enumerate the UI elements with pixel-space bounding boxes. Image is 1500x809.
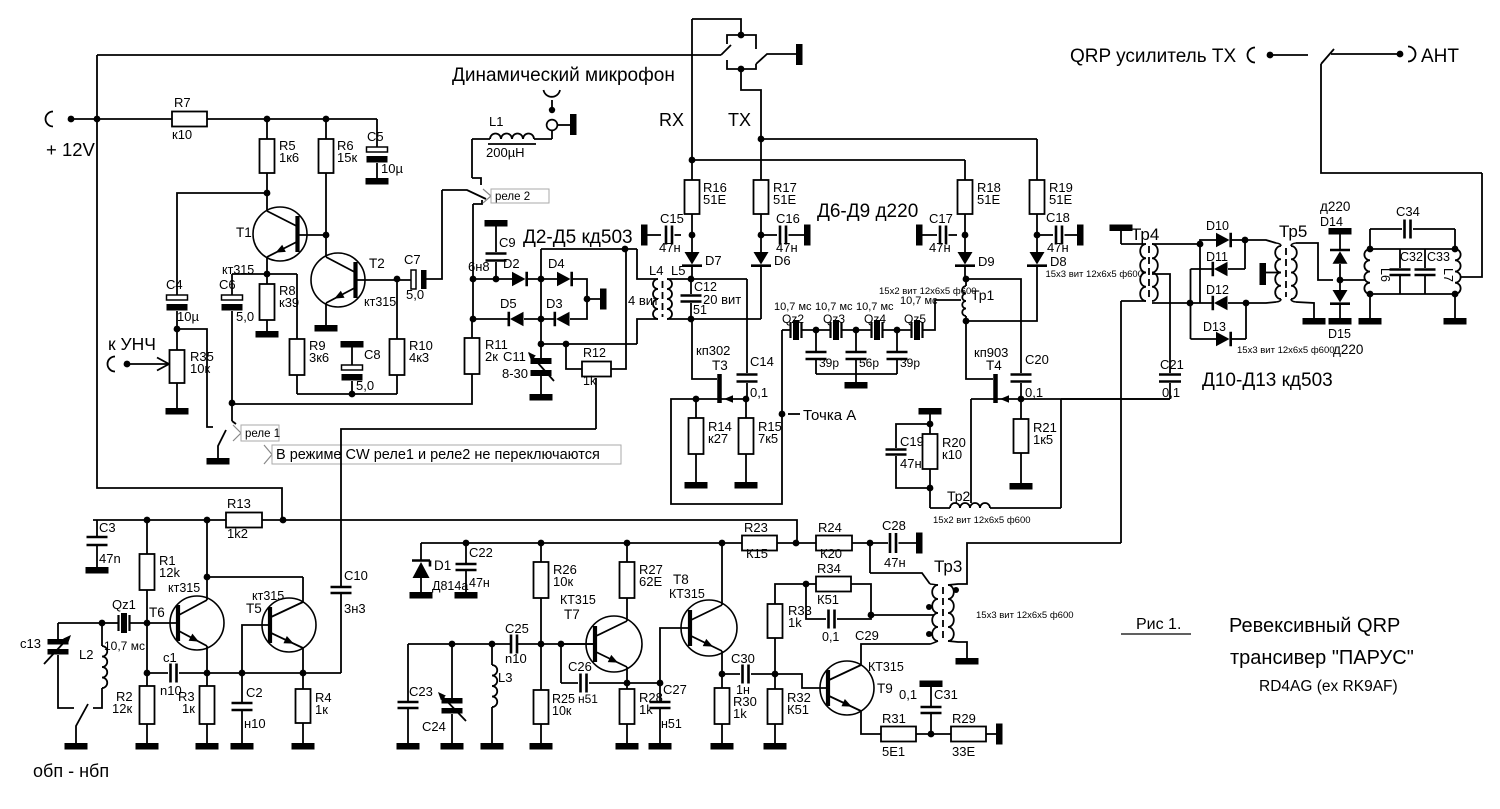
wire bus R24-C28 [852, 542, 888, 544]
transistor T7 [586, 616, 642, 672]
transformer Tp4 secondary [1152, 244, 1158, 301]
diode D5 [507, 312, 510, 327]
svg-text:D5: D5 [500, 296, 517, 311]
microphone capsule bar [570, 114, 577, 135]
wire arrow to R35 [127, 363, 168, 365]
diode D6 [760, 235, 762, 252]
svg-text:15х3 вит 12х6х5 ф600: 15х3 вит 12х6х5 ф600 [1045, 269, 1143, 280]
capacitor C16 [763, 234, 777, 236]
wire T9 base link [775, 674, 828, 688]
resistor R26 [540, 543, 542, 562]
wire mixer right column lower [1245, 303, 1247, 339]
wire osc coupling line [207, 576, 303, 578]
resistor R20 [929, 424, 931, 434]
wire feedback to Tp3 tap [871, 614, 934, 616]
wire R6 to T2 collector [325, 173, 327, 257]
resistor R19 [1036, 139, 1038, 180]
svg-text:Тр4: Тр4 [1131, 225, 1159, 244]
transformer core L4L5 [662, 281, 664, 317]
wire T3 feedback U [671, 330, 782, 504]
inductor L4 primary [653, 279, 658, 319]
node D5-D3 [538, 316, 545, 323]
wire switch to ANT jack [1331, 53, 1400, 55]
svg-text:н51: н51 [578, 692, 598, 706]
wire T5 collector [302, 577, 304, 602]
zener D1 [420, 543, 422, 560]
capacitor C20 [1011, 375, 1032, 382]
jack ANT [1408, 47, 1416, 62]
svg-text:Рис 1.: Рис 1. [1136, 616, 1181, 633]
relay1 switch [232, 421, 236, 424]
transformer core Tp5 [1285, 248, 1287, 297]
svg-text:1k: 1k [639, 702, 653, 717]
ground R28 [616, 743, 639, 750]
node rail-trunk [94, 116, 101, 123]
wire T3 gate from resonator [692, 319, 717, 379]
capacitor C27 [659, 683, 661, 701]
termination bar R29 [996, 724, 1003, 745]
svg-text:Д10-Д13 кд503: Д10-Д13 кд503 [1202, 370, 1333, 391]
svg-text:T6: T6 [149, 605, 165, 620]
svg-text:T3: T3 [712, 358, 728, 373]
svg-text:15х2 вит 12х6х5 ф600: 15х2 вит 12х6х5 ф600 [933, 515, 1031, 526]
svg-text:1k2: 1k2 [227, 526, 248, 541]
wire Tp5 center tap [1266, 272, 1281, 274]
diode D10 [1200, 240, 1216, 244]
ground R15 [735, 482, 758, 489]
ground L7 [1454, 294, 1456, 318]
svg-text:C20: C20 [1025, 352, 1049, 367]
node T1 emitter [264, 271, 271, 278]
svg-text:51E: 51E [773, 192, 796, 207]
wire mixer mid vertical [540, 249, 542, 344]
svg-text:0,1: 0,1 [1025, 385, 1043, 400]
svg-text:В режиме CW реле1 и реле2 не п: В режиме CW реле1 и реле2 не переключают… [276, 447, 600, 463]
svg-text:КТ315: КТ315 [868, 660, 904, 674]
wire R5 to T1 collector [266, 173, 268, 211]
svg-text:C12: C12 [694, 280, 717, 294]
node C26 branch [558, 641, 565, 648]
switch обп-нбп [76, 704, 88, 743]
svg-text:реле 1: реле 1 [245, 428, 280, 440]
wire emitter to C27 [627, 682, 660, 684]
capacitor C21 [1159, 375, 1181, 382]
wire T9 collector to C29 [861, 644, 930, 665]
wire T8 collector [721, 543, 723, 605]
wire y344 line [541, 343, 637, 345]
svg-text:1к6: 1к6 [279, 150, 299, 165]
svg-text:К51: К51 [817, 592, 839, 607]
resistor R35 [170, 350, 185, 383]
node L3 top [489, 641, 496, 648]
resistor R15 [745, 399, 747, 418]
svg-text:Д6-Д9 д220: Д6-Д9 д220 [817, 201, 918, 222]
crystal Qz2 [791, 322, 802, 338]
crystal Qz5 [912, 322, 923, 338]
svg-text:C29: C29 [855, 628, 879, 643]
antenna switch blade [1321, 49, 1334, 64]
svg-text:Ревексивный QRP: Ревексивный QRP [1229, 615, 1400, 637]
resistor R1 [146, 520, 148, 554]
resistor R9 [296, 274, 298, 339]
svg-text:1к5: 1к5 [1033, 432, 1053, 447]
wire mixer left column lower [1190, 269, 1192, 339]
ground L3 [481, 743, 504, 750]
carrier bar Tp5 [1260, 263, 1267, 285]
capacitor C34 [1370, 228, 1402, 230]
wire T6 collector [206, 520, 208, 600]
wire T7 emitter [626, 667, 628, 683]
wire L5 top to D7 node [667, 278, 747, 280]
wire Tp4 primary bottom to Tp3 [1120, 301, 1122, 543]
wire T4 source line [971, 398, 1021, 400]
node R1 top [144, 517, 151, 524]
capacitor C28 [890, 533, 896, 553]
label Точка А [788, 413, 800, 415]
ground C24 [441, 743, 464, 750]
wire relay to TX [741, 69, 761, 139]
resistor R10 [396, 280, 398, 339]
transformer core Tp4 [1148, 246, 1150, 299]
node L7 top [1452, 246, 1459, 253]
input jack +12V [46, 112, 53, 127]
svg-text:15к: 15к [337, 150, 357, 165]
wire Tp3 right bottom [948, 641, 967, 658]
phase dot Tp3 left lower [926, 631, 932, 637]
svg-text:Тр3: Тр3 [934, 557, 962, 576]
wire R20 top [929, 415, 931, 425]
wire R13 right segment [262, 519, 283, 521]
svg-text:47н: 47н [1047, 240, 1069, 255]
wire base link [146, 623, 148, 673]
svg-text:RX: RX [659, 110, 684, 130]
svg-text:T2: T2 [369, 256, 385, 271]
wire R11 bottom to relay bus [232, 374, 472, 404]
svg-text:R24: R24 [818, 520, 842, 535]
svg-text:C17: C17 [929, 211, 953, 226]
ground C23 [397, 743, 420, 750]
wire top row to LO bar [573, 279, 600, 299]
svg-text:10к: 10к [553, 574, 573, 589]
resistor R14 [695, 399, 697, 418]
wire T6 base lead [147, 622, 178, 624]
node Tp1 bottom [963, 318, 970, 325]
wire T1 base to R6 line [299, 234, 326, 236]
svg-text:C2: C2 [246, 685, 263, 700]
node T5 base [239, 670, 246, 677]
svg-text:C21: C21 [1160, 357, 1184, 372]
svg-text:5,0: 5,0 [406, 287, 424, 302]
transistor T9 [820, 661, 874, 715]
ground R4 [292, 743, 315, 750]
svg-text:2к: 2к [485, 349, 498, 364]
svg-text:10,7 мс: 10,7 мс [774, 301, 812, 313]
svg-text:C26: C26 [568, 659, 592, 674]
svg-text:47н: 47н [884, 555, 906, 570]
svg-text:трансивер "ПАРУС": трансивер "ПАРУС" [1230, 647, 1414, 669]
svg-text:АНТ: АНТ [1421, 46, 1459, 67]
ground C2 [231, 743, 254, 750]
diode D2 [512, 272, 526, 287]
wire +12V rail [71, 118, 172, 120]
capacitor filter shunt 3 [896, 330, 898, 351]
svg-text:C32: C32 [1400, 250, 1423, 264]
wire Tp4 sec tap to C21 [1152, 274, 1170, 373]
svg-text:C3: C3 [99, 520, 116, 535]
node T2 base / C7 [394, 276, 401, 283]
capacitor C22 [465, 543, 467, 563]
node L6 bottom [1367, 291, 1374, 298]
jack QRP out [1248, 48, 1255, 63]
capacitor C11 variable [540, 344, 542, 358]
resistor R24 [816, 536, 852, 551]
svg-text:0,1: 0,1 [1162, 385, 1180, 400]
wire R12 bottom tail [595, 378, 597, 429]
capacitor C23 [407, 644, 409, 701]
node T8 emitter [719, 671, 726, 678]
ground C27 [649, 743, 672, 750]
wire T7 collector [626, 617, 628, 621]
diode D9 [964, 235, 966, 252]
capacitor C4 [167, 295, 188, 300]
svg-text:51: 51 [693, 303, 707, 317]
wire to ant switch [1270, 54, 1308, 56]
wire link to L4 [637, 249, 658, 279]
relay antenna stub bar [796, 44, 803, 65]
node ANT [1397, 51, 1404, 58]
svg-text:C15: C15 [660, 211, 684, 226]
svg-text:C11: C11 [503, 349, 526, 364]
wire mixer top link [541, 248, 637, 250]
svg-text:C9: C9 [499, 235, 516, 250]
svg-text:C10: C10 [344, 568, 368, 583]
svg-text:к10: к10 [172, 127, 192, 142]
node T6 emitter [204, 670, 211, 677]
wire Tp4 sec bottom [1152, 302, 1190, 304]
wire emitter bus [207, 672, 341, 674]
flag реле 1 [233, 425, 241, 441]
svg-text:д220: д220 [1320, 199, 1350, 214]
svg-text:200µН: 200µН [486, 145, 525, 160]
wire +12V vertical trunk [97, 55, 282, 520]
transformer Tp3 right winding [948, 585, 954, 641]
wire C21 to Tp2 [1061, 398, 1170, 400]
capacitor C5 [376, 119, 378, 147]
svg-text:D12: D12 [1206, 283, 1229, 297]
node T6 base [144, 620, 151, 627]
svg-text:Тр2: Тр2 [947, 488, 971, 504]
resistor R4 [302, 673, 304, 689]
crystal Qz1 [102, 622, 118, 624]
svg-text:56р: 56р [859, 356, 879, 370]
wire relay2 blade to C7 [426, 190, 442, 279]
node tank top [99, 620, 106, 627]
ground bar above Tp4 [1110, 225, 1133, 232]
resistor R5 [266, 119, 268, 139]
node T7 emitter [624, 680, 631, 687]
svg-text:0,1: 0,1 [750, 385, 768, 400]
node mixer right [584, 296, 591, 303]
node Точка А [779, 411, 786, 418]
svg-text:реле 2: реле 2 [495, 191, 530, 203]
wire source to C21 line [1021, 398, 1170, 400]
wire ant switch down [1321, 64, 1482, 173]
diode D3 [553, 312, 556, 327]
capacitor C19 [896, 424, 930, 448]
ground R8 [256, 331, 279, 338]
microphone connector [544, 90, 561, 97]
ground filter [845, 382, 868, 389]
wire filter output to Tp1 [923, 300, 961, 330]
wire T8 emitter [721, 651, 723, 674]
wire limiter to L6 tap [1340, 279, 1366, 281]
svg-text:10,7 мс: 10,7 мс [104, 639, 145, 653]
svg-text:C23: C23 [409, 684, 433, 699]
wire VFO tank line [408, 643, 510, 645]
node osc coupling [204, 574, 211, 581]
wire T8 base link [660, 628, 688, 683]
svg-text:Qz4: Qz4 [864, 312, 886, 326]
wire T9 emitter [861, 711, 881, 734]
wire R29 right [986, 733, 996, 735]
resistor R34 [806, 583, 816, 585]
transformer Tp1 [965, 279, 967, 286]
capacitor C33 [1424, 249, 1426, 268]
svg-text:T7: T7 [564, 607, 580, 622]
ground C3 [86, 567, 109, 574]
svg-text:47н: 47н [469, 576, 490, 590]
capacitor C7 [411, 270, 416, 289]
transformer Tp3 left winding [932, 585, 938, 641]
svg-text:6н8: 6н8 [468, 259, 490, 274]
flag реле 2 [483, 189, 491, 203]
svg-text:L4: L4 [649, 263, 663, 278]
svg-text:+ 12V: + 12V [46, 139, 96, 160]
ground R2 [136, 743, 159, 750]
wire down to Tp2 right [1060, 399, 1062, 508]
svg-text:кт315: кт315 [364, 295, 396, 309]
svg-text:D15: D15 [1328, 327, 1351, 341]
svg-text:C7: C7 [404, 252, 421, 267]
jack к УНЧ [108, 357, 115, 372]
wire mixer right column upper [1244, 240, 1246, 269]
svg-text:Точка А: Точка А [803, 407, 856, 424]
capacitor C10 [340, 594, 342, 673]
svg-text:D3: D3 [546, 296, 563, 311]
svg-text:47н: 47н [929, 240, 951, 255]
ground R25 [530, 743, 553, 750]
svg-text:RD4AG (ex RK9AF): RD4AG (ex RK9AF) [1259, 678, 1398, 695]
svg-text:10µ: 10µ [381, 161, 403, 176]
svg-text:C16: C16 [776, 211, 800, 226]
svg-text:Тр5: Тр5 [1279, 222, 1307, 241]
svg-text:КТ315: КТ315 [669, 587, 705, 601]
svg-text:5,0: 5,0 [236, 309, 254, 324]
svg-text:n10: n10 [505, 651, 527, 666]
resistor R2 [146, 673, 148, 686]
capacitor C2 [241, 673, 243, 702]
svg-text:T5: T5 [246, 601, 262, 616]
wire R9 bottom bus [297, 393, 397, 395]
ground R32 [764, 743, 787, 750]
svg-text:51E: 51E [1049, 192, 1072, 207]
svg-text:C14: C14 [750, 354, 774, 369]
wire filter ground bus [816, 373, 897, 375]
crystal Qz3 [831, 322, 842, 338]
resistor R6 [325, 119, 327, 139]
wire frame right down to C14 [746, 279, 748, 373]
wire Tp4 top [1120, 231, 1122, 244]
svg-text:7к5: 7к5 [758, 431, 778, 446]
transistor T1 [253, 207, 307, 261]
node feedback [868, 612, 875, 619]
capacitor C31 [930, 714, 932, 734]
wire tank top [58, 622, 102, 624]
resistor R33 [774, 638, 776, 674]
svg-text:D7: D7 [705, 253, 722, 268]
svg-text:10к: 10к [552, 704, 572, 718]
svg-text:1k: 1k [583, 374, 597, 388]
resistor R32 [774, 674, 776, 689]
svg-text:C27: C27 [663, 682, 687, 697]
svg-text:0,1: 0,1 [822, 630, 839, 644]
svg-text:C5: C5 [367, 129, 384, 144]
svg-text:5Е1: 5Е1 [882, 744, 905, 759]
wire T5 base [242, 625, 270, 673]
wire C28 branch to Tp3 [869, 544, 871, 573]
node mixer bottom-left [470, 316, 477, 323]
node C18 [1034, 232, 1041, 239]
svg-text:QRP усилитель TX: QRP усилитель TX [1070, 46, 1237, 67]
wire Tp2 center tap [970, 399, 972, 503]
svg-text:R34: R34 [817, 561, 841, 576]
wire bus to oscillators [283, 520, 797, 543]
svg-text:кт315: кт315 [252, 589, 284, 603]
node C17 [962, 232, 969, 239]
resistor R27 [626, 543, 628, 562]
svg-text:н51: н51 [661, 717, 682, 731]
transistor T6 [170, 596, 224, 650]
svg-text:R12: R12 [583, 346, 606, 360]
node C16 [758, 232, 765, 239]
capacitor C14 [737, 375, 758, 382]
capacitor C24 variable [451, 644, 453, 698]
diode D7 [691, 235, 693, 252]
relay2 switch [471, 139, 473, 178]
svg-text:4к3: 4к3 [409, 350, 429, 365]
svg-text:L1: L1 [489, 114, 503, 129]
svg-text:33Е: 33Е [952, 744, 975, 759]
node R34 left [803, 581, 810, 588]
node R27 top [624, 540, 631, 547]
ground switch [65, 743, 88, 750]
svg-text:C30: C30 [731, 651, 755, 666]
diode D4 [557, 272, 571, 287]
phase dot Tp3 left upper [926, 604, 932, 610]
diode D8 [1036, 235, 1038, 252]
svg-text:51E: 51E [977, 192, 1000, 207]
node R26 top [538, 540, 545, 547]
svg-text:47n: 47n [99, 551, 121, 566]
wire T1 emitter bus [266, 257, 268, 274]
svg-text:D10: D10 [1206, 219, 1229, 233]
svg-text:КТ315: КТ315 [560, 593, 596, 607]
ground R21 [1010, 483, 1033, 490]
svg-text:Qz2: Qz2 [782, 312, 804, 326]
resistor R8 [266, 274, 268, 284]
svg-text:C31: C31 [934, 687, 958, 702]
node T1 collector feed [264, 190, 271, 197]
